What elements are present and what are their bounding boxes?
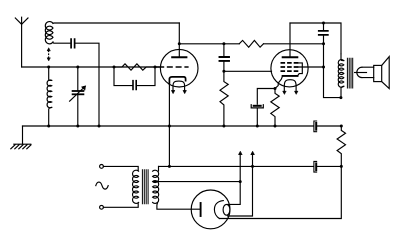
wire C4 to V2 grid: [224, 70, 272, 72]
wire V2 cathode to bias network: [257, 89, 275, 105]
wire secondary top to line B: [158, 166, 160, 171]
V2 cathode: [283, 75, 298, 77]
power transformer primary: [133, 170, 139, 203]
variable capacitor C3 tuning: [70, 67, 86, 126]
inductor L2 tuning coil: [47, 67, 52, 126]
rectifier tube envelope: [191, 190, 230, 229]
V1 cathode: [169, 77, 185, 84]
output transformer primary: [338, 54, 344, 98]
V2 grids (dashed rows): [281, 63, 299, 71]
wire filament top to arrow 1: [228, 154, 241, 204]
filter capacitor C7: [314, 121, 317, 132]
resistor R1 grid leak: [114, 64, 155, 70]
wire secondary center tap: [154, 181, 240, 183]
ground symbol: [11, 126, 31, 149]
pentode V2 envelope: [271, 50, 308, 87]
variable coupling arrow (dashed): [47, 48, 50, 61]
capacitor C6: [319, 23, 341, 98]
V1 plate: [172, 44, 186, 57]
wire grid line y=67: [22, 66, 161, 68]
resistor R4 cathode bias: [271, 89, 279, 127]
wire AC top to primary: [103, 166, 138, 170]
arrow up 1: [238, 151, 242, 154]
ground bus y=126: [23, 125, 314, 127]
V1 filament: [171, 81, 186, 94]
V2 plate: [283, 23, 298, 57]
rectifier plate: [200, 203, 202, 216]
AC tilde: [96, 182, 108, 189]
capacitor C5 bypass: [251, 105, 263, 126]
AC input terminal top: [100, 165, 104, 169]
filter capacitor C8: [314, 161, 317, 172]
wire plate V1 junction: [179, 23, 239, 44]
speaker driver: [374, 65, 382, 81]
speaker voice coil: [355, 67, 374, 77]
resistor R5 filter: [337, 126, 345, 166]
inductor L1 antenna coil: [45, 22, 179, 44]
power transformer secondary: [153, 170, 159, 203]
antenna: [15, 17, 28, 67]
wire V2 screen to node: [298, 66, 323, 68]
AC input terminal bottom: [100, 205, 104, 209]
triode V1 envelope: [160, 49, 198, 87]
capacitor C4: [220, 44, 230, 72]
rectifier filament loop: [223, 204, 230, 215]
power transformer core: [142, 170, 148, 204]
resistor R2 coupling: [239, 40, 263, 47]
resistor R3 grid leak 2: [220, 71, 228, 126]
output transformer core: [347, 58, 352, 88]
wire AC bottom to primary: [103, 203, 138, 207]
wire secondary bottom to rectifier plate: [157, 203, 200, 209]
wire rectifier cathode output: [219, 166, 341, 218]
V2 filament: [283, 80, 298, 95]
wire filament bottom to arrow 2: [228, 154, 253, 216]
speaker cone: [382, 57, 390, 89]
capacitor C1 coupling: [71, 39, 99, 126]
V1 grid (dashed): [155, 66, 189, 68]
wire top right from V2 plate: [290, 23, 341, 54]
wire line B: [159, 165, 341, 167]
capacitor C2 grid: [114, 67, 155, 90]
V2 grid-cathode bracket: [298, 63, 303, 76]
arrow up 2: [251, 151, 255, 154]
wire R2 to C6 node: [264, 43, 324, 45]
rectifier cathode: [214, 201, 223, 219]
V2 cathode tail: [275, 76, 283, 89]
V1 cathode riser wire: [168, 84, 170, 166]
